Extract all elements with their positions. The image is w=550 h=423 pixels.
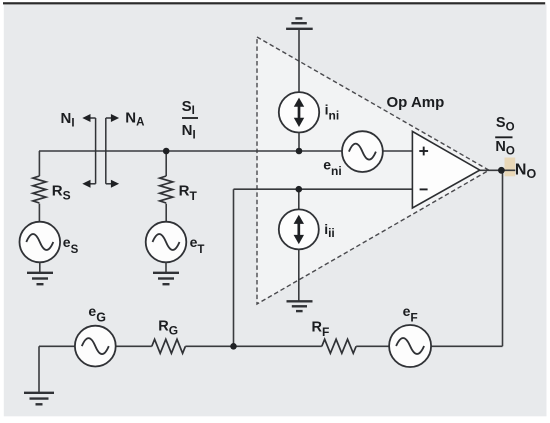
wire: bottom rail left	[39, 345, 152, 347]
ground under iii	[287, 301, 313, 311]
source eF	[389, 325, 431, 367]
transformer winding NA (amplifier side)	[106, 114, 119, 188]
ground under eT	[153, 273, 179, 284]
wire: main input rail (+ input)	[39, 150, 412, 152]
wire: feedback riser	[233, 189, 235, 346]
source eG	[75, 326, 116, 367]
wire: inverting input rail	[234, 188, 413, 190]
junction: feedback node	[230, 343, 237, 350]
wire: top ground to ini	[298, 30, 300, 93]
wire: eS to ground	[39, 262, 41, 272]
resistor RF	[322, 339, 356, 353]
resistor RG	[152, 339, 186, 353]
wire: RT branch upper	[165, 151, 167, 176]
wire: output column	[502, 170, 504, 346]
source eS	[20, 222, 61, 263]
wire: op-amp output	[480, 169, 516, 171]
label SI/NI fraction	[182, 98, 198, 141]
ground bottom-left	[24, 393, 54, 405]
wire: bottom-left ground drop	[38, 346, 40, 392]
op-amp U1	[412, 131, 479, 208]
junction: RT tap	[163, 148, 170, 155]
label SO/NO fraction	[495, 115, 515, 158]
source eT	[146, 222, 187, 263]
transformer winding NI (input side)	[82, 114, 95, 188]
wire: inverting rail to iii	[298, 189, 300, 209]
wire: eT to ground	[165, 262, 167, 272]
junction: output node NO	[498, 167, 505, 174]
wire: RS to eS	[38, 204, 40, 222]
tan highlight behind NO node	[505, 158, 516, 177]
current source ini	[279, 92, 319, 132]
current source iii	[279, 209, 319, 249]
wire: bottom rail right	[356, 345, 502, 347]
wire: iii to ground	[298, 249, 300, 300]
wire: RT to eT	[165, 204, 167, 222]
op-amp noise boundary (dashed triangle)	[257, 37, 489, 304]
top border line	[3, 2, 545, 4]
svg-text:Op Amp: Op Amp	[387, 94, 445, 111]
ground above ini (inverted)	[286, 18, 313, 28]
source eni	[342, 131, 383, 172]
wire: source branch upper	[38, 151, 40, 176]
junction: ini tap	[296, 148, 303, 155]
resistor RS	[33, 176, 46, 203]
ground under eS	[27, 273, 53, 284]
wire: bottom rail mid	[185, 345, 321, 347]
resistor RT	[160, 176, 173, 203]
junction: iii tap	[296, 186, 303, 193]
wire: ini to main rail	[298, 132, 300, 151]
